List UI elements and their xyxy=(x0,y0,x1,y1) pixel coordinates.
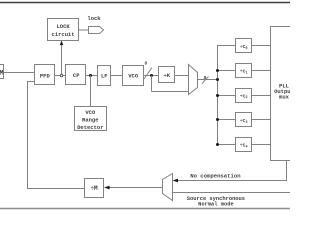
block divider C1 xyxy=(236,64,252,78)
wire reference to PFD xyxy=(4,72,35,74)
wire compensation from output mux bottom xyxy=(177,161,287,181)
svg-text:Range: Range xyxy=(82,116,99,123)
wire bypass to mux xyxy=(152,91,189,93)
svg-text:No compensation: No compensation xyxy=(190,172,241,179)
svg-text:CP: CP xyxy=(73,72,80,79)
svg-text:Normal mode: Normal mode xyxy=(198,202,234,208)
node open circle on PFD-CP wire xyxy=(60,74,63,77)
svg-text:M: M xyxy=(0,69,4,76)
block divider C0 xyxy=(236,39,252,53)
block divider C2 xyxy=(236,89,252,103)
wire source synchronous input xyxy=(173,192,291,194)
wire divide-by-K to mux xyxy=(175,75,189,77)
node bus junction mux feed xyxy=(216,78,219,81)
output pad lock (pentagon) xyxy=(89,27,104,34)
wire PFD to CP xyxy=(55,75,66,77)
wire bus to divider C3 xyxy=(218,119,236,121)
block PFD xyxy=(35,65,55,85)
node junction before divide-by-K xyxy=(150,74,153,77)
block LOCK circuit xyxy=(48,19,79,41)
mux U2 (mode select) xyxy=(163,174,173,201)
block VCO xyxy=(123,66,144,86)
wire divider C2 to output mux xyxy=(252,95,271,97)
block VCO Range Detector xyxy=(75,107,107,131)
wire LOCK circuit to lock output pad xyxy=(79,29,89,31)
svg-text:÷M: ÷M xyxy=(90,185,98,192)
wire VCO to divide-by-K xyxy=(144,75,159,77)
wire divider C1 to output mux xyxy=(252,70,271,72)
svg-text:8: 8 xyxy=(144,62,147,67)
wire bus to divider C2 xyxy=(218,95,236,97)
block LF xyxy=(98,66,111,86)
wire divider C3 to output mux xyxy=(252,119,271,121)
svg-text:Detector: Detector xyxy=(77,124,103,131)
bus slash 8-bit after VCO xyxy=(144,68,152,80)
wire CP to LF xyxy=(86,75,98,77)
svg-text:circuit: circuit xyxy=(52,31,75,38)
wire feedback divide-by-M to PFD xyxy=(28,82,85,189)
mux U1 (VCO/divided select) xyxy=(189,65,198,95)
node bus junction C4 xyxy=(216,143,219,146)
arrowhead into divide-by-M xyxy=(104,186,110,190)
bus slash 8-bit after mux xyxy=(202,77,209,84)
wire divider C4 to output mux xyxy=(252,144,271,146)
node bus junction C3 xyxy=(216,118,219,121)
wire bus to divider C1 xyxy=(218,70,236,72)
wire junction down to VCO Range Detector xyxy=(90,76,92,107)
svg-text:÷K: ÷K xyxy=(163,72,170,79)
block divide-by-K xyxy=(159,67,175,83)
block divider C3 xyxy=(236,113,252,127)
svg-text:LF: LF xyxy=(101,72,108,79)
block divider C4 xyxy=(236,138,252,152)
block divide-by-M xyxy=(85,179,104,198)
arrowhead into LOCK circuit xyxy=(60,41,64,46)
wire divider C0 to output mux xyxy=(252,45,271,47)
svg-text:VCO: VCO xyxy=(85,109,96,116)
svg-text:LOCK: LOCK xyxy=(56,23,70,30)
svg-text:8: 8 xyxy=(204,76,207,81)
arrowhead no-compensation into mode mux xyxy=(173,179,179,183)
svg-text:lock: lock xyxy=(87,15,101,22)
node bus junction C2 xyxy=(216,94,219,97)
wire mux output to distribution bus xyxy=(198,79,218,81)
svg-text:PFD: PFD xyxy=(40,72,51,79)
wire LF to VCO xyxy=(111,75,123,77)
block PLL Output mux (clipped at right edge) xyxy=(271,27,303,161)
reference input block (clipped at left edge) xyxy=(0,65,4,79)
node junction after CP xyxy=(89,74,92,77)
node bus junction C1 xyxy=(216,69,219,72)
svg-text:mux: mux xyxy=(279,94,290,101)
bottom border rule xyxy=(0,208,290,210)
wire vertical distribution bus xyxy=(218,46,236,145)
svg-text:VCO: VCO xyxy=(128,72,139,79)
top border rule xyxy=(0,2,290,4)
wire bypass down from junction xyxy=(151,76,153,92)
wire mode mux output to divide-by-M xyxy=(109,187,163,189)
block CP xyxy=(66,65,86,85)
wire tap to LOCK circuit xyxy=(61,44,63,74)
